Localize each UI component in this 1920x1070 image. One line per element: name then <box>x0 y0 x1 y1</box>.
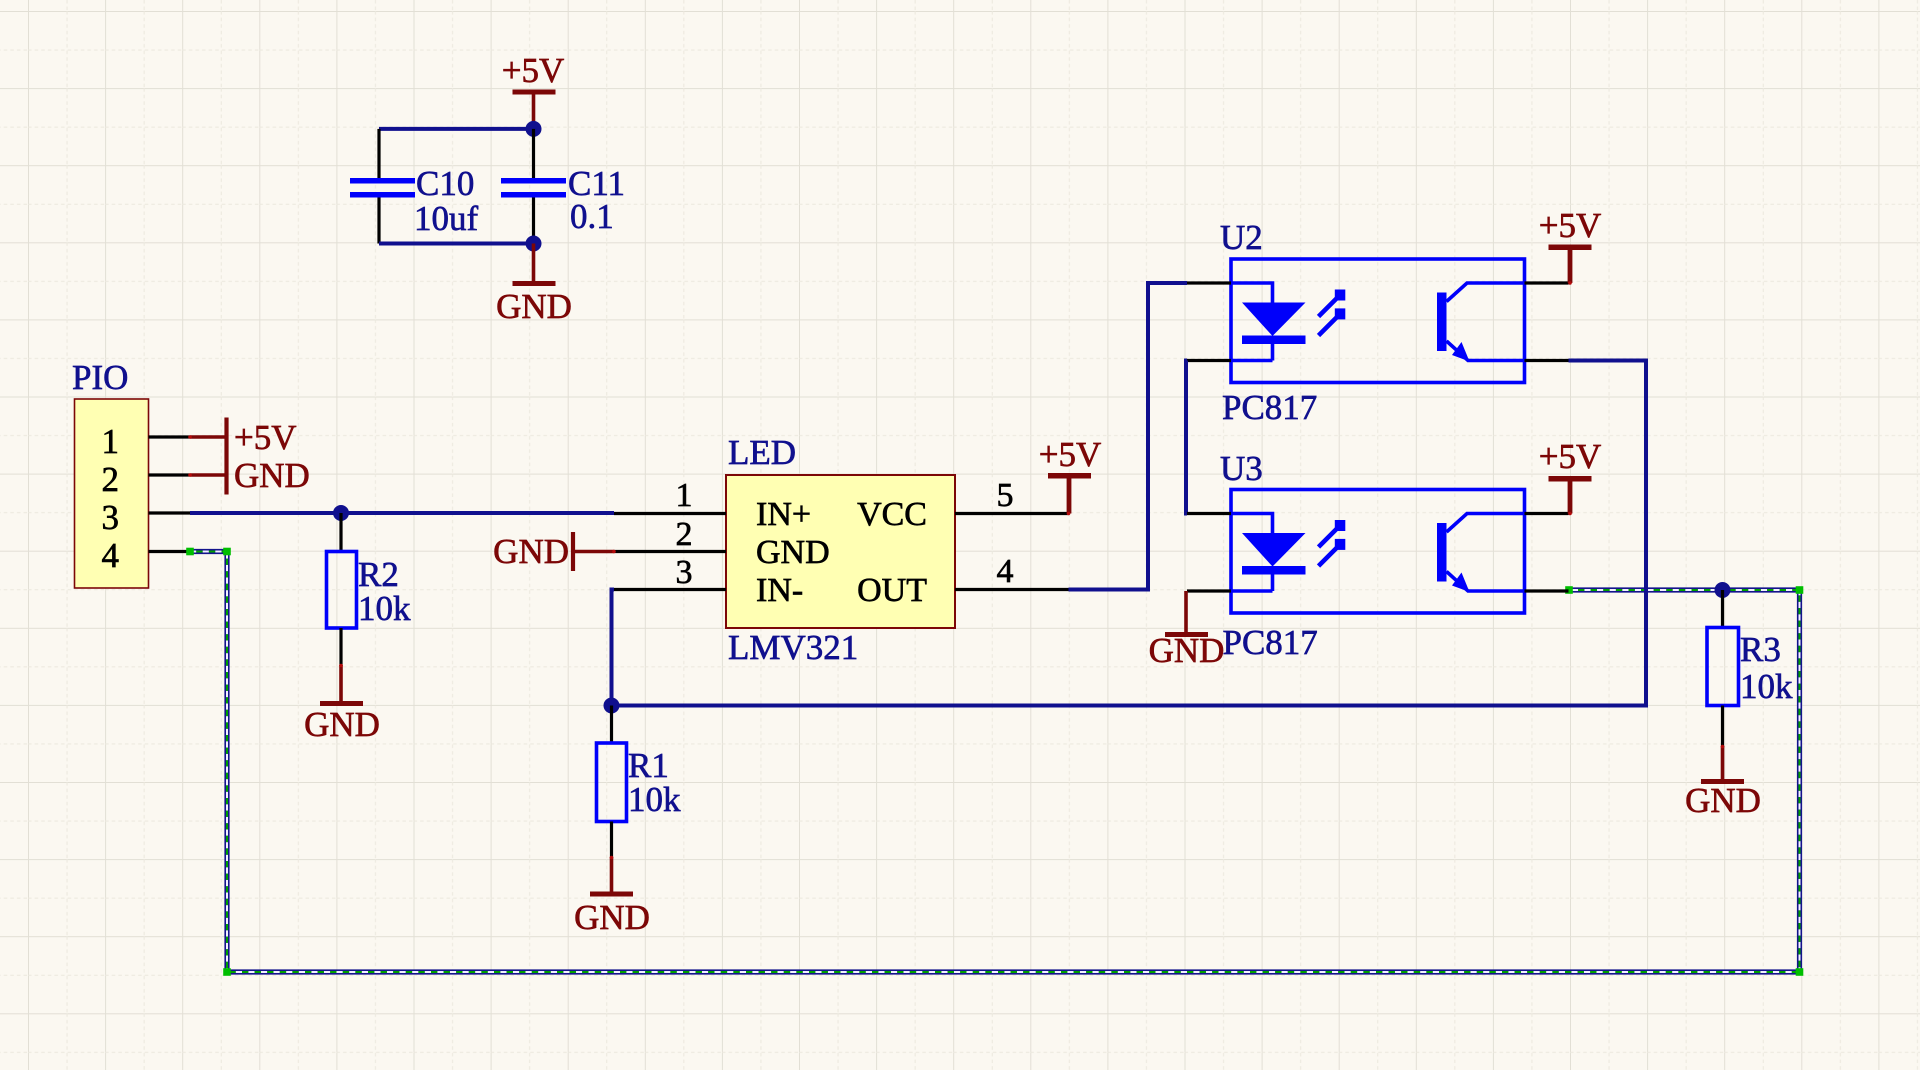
ground GND (below R3) <box>1685 746 1761 820</box>
body <box>1707 628 1739 706</box>
junction (R3 top on selected net) <box>1715 582 1731 598</box>
svg-text:LMV321: LMV321 <box>728 628 858 667</box>
ground GND (below R1) <box>574 857 650 937</box>
power port GND (LMV321 pin 2) <box>493 532 614 571</box>
svg-text:+5V: +5V <box>1539 206 1602 245</box>
svg-text:10k: 10k <box>1740 667 1793 706</box>
wire bottom C10-C11 <box>379 242 534 246</box>
selection vertex squares <box>186 548 1803 976</box>
connector PIO <box>72 358 190 588</box>
svg-text:4: 4 <box>997 553 1014 590</box>
capacitor C10 <box>350 129 479 244</box>
op-amp U1 LMV321 <box>614 433 1069 667</box>
pin <box>1721 590 1724 628</box>
plates <box>501 178 566 184</box>
svg-text:1: 1 <box>676 477 693 514</box>
junction (R1 top) <box>604 698 620 714</box>
selected wire (PIO pin4 net, highlighted) <box>190 552 1800 973</box>
svg-text:0.1: 0.1 <box>570 197 614 236</box>
resistor R2 <box>327 513 412 666</box>
power port +5V (U2 collector) <box>1539 206 1602 283</box>
resistor R3 <box>1707 590 1793 747</box>
junction <box>526 121 542 137</box>
symbol body <box>1187 490 1569 614</box>
svg-text:LED: LED <box>728 433 796 472</box>
svg-text:GND: GND <box>1149 631 1225 670</box>
svg-text:GND: GND <box>756 534 830 571</box>
resistor R1 <box>597 706 682 859</box>
body <box>327 552 357 629</box>
svg-text:10k: 10k <box>358 589 411 628</box>
connector body <box>75 399 149 588</box>
pin <box>1721 706 1724 748</box>
svg-text:1: 1 <box>102 422 120 461</box>
svg-text:4: 4 <box>102 536 120 575</box>
svg-text:GND: GND <box>1685 781 1761 820</box>
pin 4 <box>955 588 1069 591</box>
pin 3 <box>614 588 726 591</box>
pin <box>532 129 535 178</box>
pin 3 <box>149 511 191 514</box>
IC body <box>726 475 955 628</box>
wire top C10-C11 <box>379 127 534 131</box>
svg-text:5: 5 <box>997 477 1014 514</box>
pin <box>339 628 342 666</box>
svg-text:PC817: PC817 <box>1223 623 1318 662</box>
wire LMV321 OUT to U2 anode <box>1069 283 1188 590</box>
svg-text:+5V: +5V <box>1539 437 1602 476</box>
pin <box>610 706 613 744</box>
pin <box>532 198 535 244</box>
svg-text:IN+: IN+ <box>756 496 811 533</box>
pin hotspot dots <box>188 281 1724 859</box>
pin 1 <box>149 435 191 438</box>
svg-text:2: 2 <box>102 460 120 499</box>
wire U2 cathode to U3 anode <box>1186 361 1187 514</box>
power port +5V (LMV321 pin 5) <box>1039 435 1102 514</box>
svg-text:GND: GND <box>234 456 310 495</box>
symbol body <box>1187 259 1569 383</box>
ground GND (below C11) <box>496 244 572 327</box>
pin <box>377 129 380 178</box>
optocoupler U2 <box>1187 218 1569 427</box>
power port +5V (U3 collector) <box>1539 437 1602 514</box>
svg-text:IN-: IN- <box>756 572 803 609</box>
svg-text:GND: GND <box>493 532 569 571</box>
svg-text:+5V: +5V <box>1039 435 1102 474</box>
svg-text:OUT: OUT <box>857 572 927 609</box>
svg-text:10uf: 10uf <box>414 199 479 238</box>
wire LMV321 IN- down to R1 <box>612 590 615 706</box>
svg-text:C10: C10 <box>416 164 474 203</box>
svg-text:VCC: VCC <box>857 496 927 533</box>
pin 2 <box>149 473 191 476</box>
power port +5V (PIO pin 1) <box>190 418 297 458</box>
svg-text:3: 3 <box>676 554 693 591</box>
svg-text:PC817: PC817 <box>1222 388 1317 427</box>
body <box>597 743 627 822</box>
pin 5 <box>955 512 1069 515</box>
pin 4 <box>149 550 191 553</box>
wire feedback R1 to U2 emitter <box>612 361 1647 706</box>
junction (R2 top) <box>333 505 349 521</box>
svg-text:GND: GND <box>574 898 650 937</box>
power port GND (PIO pin 2) <box>190 456 310 495</box>
pin 1 <box>614 512 726 515</box>
ground GND (U3 cathode) <box>1149 591 1225 670</box>
svg-text:10k: 10k <box>628 780 681 819</box>
power port +5V (top, above C11) <box>502 51 565 129</box>
svg-text:U3: U3 <box>1220 449 1263 488</box>
optocoupler U3 <box>1187 449 1569 662</box>
svg-text:3: 3 <box>102 498 120 537</box>
ground GND (below R2) <box>304 665 380 744</box>
capacitor C11 <box>501 129 625 244</box>
junction <box>526 236 542 252</box>
pin <box>339 513 342 552</box>
wire PIO pin3 to LMV321 IN+ <box>190 511 614 515</box>
svg-text:GND: GND <box>496 287 572 326</box>
plates <box>350 178 415 184</box>
svg-text:2: 2 <box>676 516 693 553</box>
svg-text:+5V: +5V <box>502 51 565 90</box>
svg-text:+5V: +5V <box>234 418 297 457</box>
svg-text:U2: U2 <box>1220 218 1263 257</box>
svg-text:R3: R3 <box>1740 630 1781 669</box>
pin 2 <box>614 550 726 553</box>
svg-text:GND: GND <box>304 705 380 744</box>
pin <box>610 822 613 859</box>
pin <box>377 198 380 244</box>
svg-text:PIO: PIO <box>72 358 128 397</box>
